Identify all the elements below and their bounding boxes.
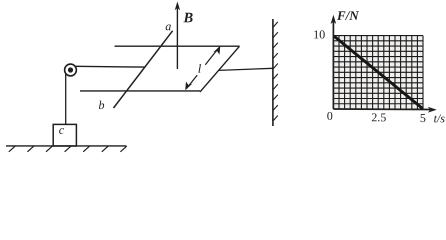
near rail: [80, 90, 200, 92]
conducting rod ab: [114, 31, 173, 108]
axis label F/N: [337, 11, 359, 20]
F-t data line: [334, 36, 423, 109]
tick label 2.5: [372, 113, 386, 121]
axis label t/s: [434, 114, 444, 122]
tick label 5: [421, 114, 426, 122]
pulley: [65, 64, 77, 76]
label a: [166, 25, 171, 31]
label B: [183, 13, 192, 23]
label b: [99, 101, 104, 109]
tick label 10: [314, 30, 324, 38]
label c: [59, 128, 64, 134]
length dimension arrow l (double headed): [185, 46, 220, 91]
rail end connector: [200, 46, 240, 92]
magnetic field arrow B: [175, 2, 180, 70]
wire: string from rail assembly to wall: [219, 68, 273, 70]
origin label 0: [327, 112, 332, 120]
far rail: [115, 45, 240, 47]
x axis (t): [333, 107, 436, 113]
wire: string vertical segment from pulley down to weight c: [65, 73, 67, 125]
wire: string horizontal segment from pulley to rod ab: [76, 65, 146, 68]
graph grid: [333, 36, 423, 109]
wall: [273, 19, 278, 126]
ground: [6, 146, 127, 152]
weight c (block resting on ground): [53, 124, 76, 146]
y axis (F): [331, 15, 337, 109]
label l: [198, 64, 201, 73]
graph grid background: [333, 36, 423, 109]
